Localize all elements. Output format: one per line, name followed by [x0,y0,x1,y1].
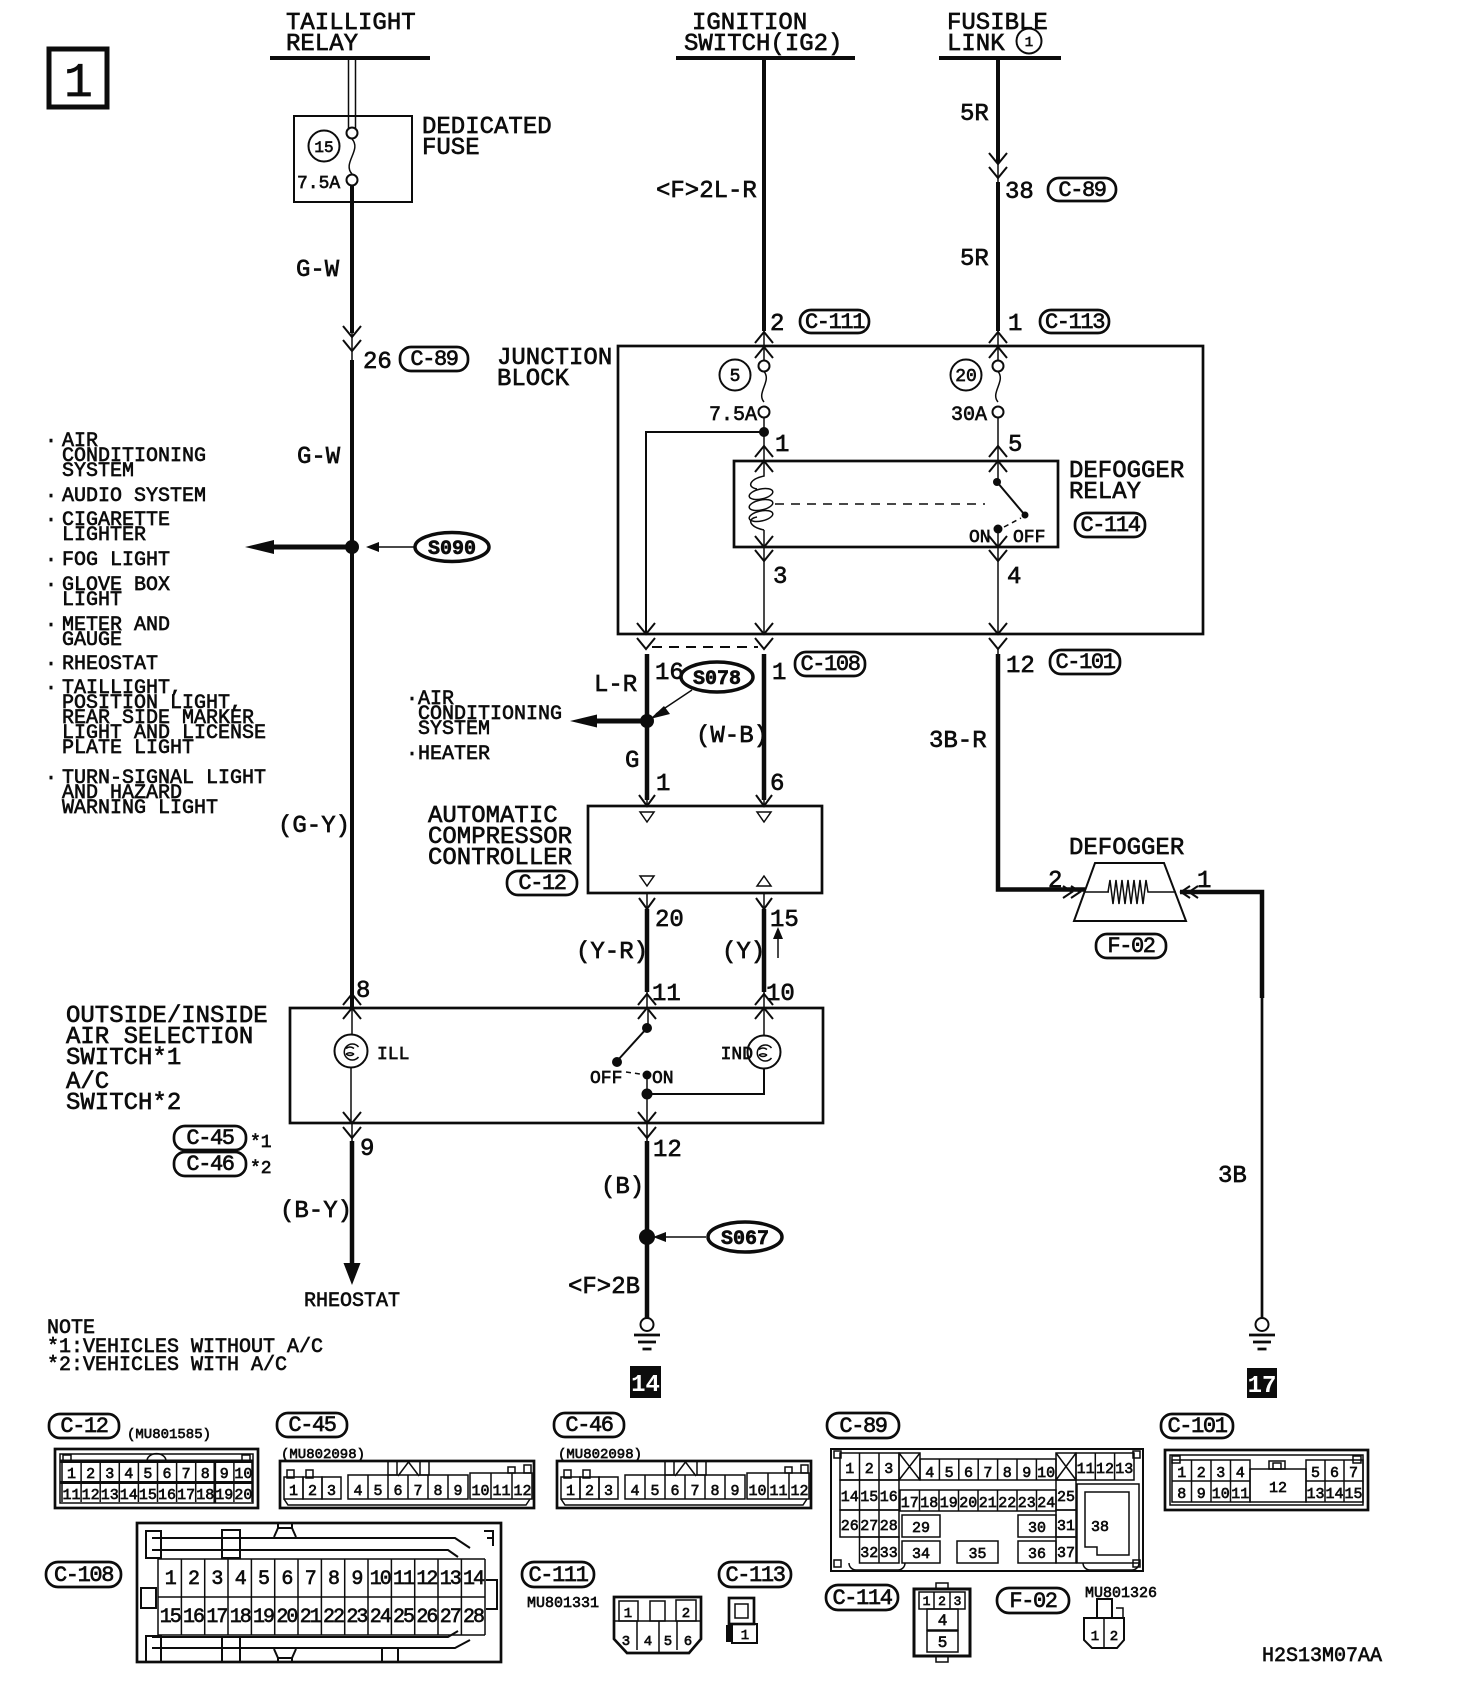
svg-text:29: 29 [912,1520,930,1537]
svg-text:19: 19 [215,1487,233,1504]
svg-text:21: 21 [979,1495,997,1512]
svg-text:14: 14 [631,1372,660,1399]
svg-text:7: 7 [1349,1465,1358,1482]
svg-text:12: 12 [653,1137,682,1164]
svg-text:C-108: C-108 [54,1563,113,1588]
svg-text:4: 4 [925,1465,934,1482]
svg-text:ON: ON [652,1069,674,1089]
svg-text:3: 3 [211,1568,222,1591]
svg-text:<F>2L-R: <F>2L-R [656,178,757,205]
svg-text:OFF: OFF [1013,528,1045,548]
svg-text:(G-Y): (G-Y) [278,813,350,840]
svg-text:(MU801585): (MU801585) [127,1427,211,1443]
svg-text:9: 9 [453,1483,462,1500]
svg-text:2: 2 [682,1606,690,1622]
svg-text:G-W: G-W [297,444,341,471]
svg-text:C-111: C-111 [528,1563,588,1588]
svg-text:4: 4 [1236,1465,1245,1482]
svg-text:9: 9 [1197,1486,1206,1503]
svg-text:RHEOSTAT: RHEOSTAT [304,1290,400,1313]
svg-text:6: 6 [162,1466,171,1483]
svg-text:*2: *2 [250,1159,272,1179]
svg-text:FUSE: FUSE [422,135,480,162]
svg-text:3: 3 [954,1594,962,1609]
svg-text:7: 7 [983,1465,992,1482]
svg-text:26: 26 [416,1606,437,1629]
svg-text:8: 8 [328,1568,339,1591]
svg-text:3: 3 [105,1466,114,1483]
svg-text:8: 8 [1177,1486,1186,1503]
svg-text:1: 1 [656,771,670,798]
svg-text:S067: S067 [721,1228,769,1251]
svg-text:5R: 5R [960,246,989,273]
svg-text:28: 28 [463,1606,484,1629]
svg-text:·: · [45,509,57,532]
svg-text:PLATE LIGHT: PLATE LIGHT [62,737,194,760]
svg-text:30A: 30A [951,404,987,427]
svg-text:12: 12 [513,1483,531,1500]
svg-text:1: 1 [67,1466,76,1483]
svg-text:33: 33 [880,1545,898,1562]
svg-text:ILL: ILL [377,1045,409,1065]
svg-text:5: 5 [1311,1465,1320,1482]
svg-text:13: 13 [440,1568,461,1591]
svg-text:20: 20 [276,1606,297,1629]
svg-text:9: 9 [220,1466,229,1483]
svg-text:22: 22 [998,1495,1016,1512]
svg-text:16: 16 [655,660,684,687]
svg-text:2: 2 [1048,868,1062,895]
svg-text:12: 12 [1006,653,1035,680]
svg-text:7: 7 [413,1483,422,1500]
svg-text:4: 4 [235,1568,246,1591]
svg-text:L-R: L-R [594,672,637,699]
svg-text:1: 1 [1008,311,1022,338]
svg-text:11: 11 [1077,1461,1095,1478]
svg-text:6: 6 [1330,1465,1339,1482]
svg-text:19: 19 [253,1606,274,1629]
svg-text:S078: S078 [693,668,741,691]
svg-text:5: 5 [143,1466,152,1483]
svg-text:*2:VEHICLES WITH A/C: *2:VEHICLES WITH A/C [47,1354,287,1377]
svg-text:5: 5 [373,1483,382,1500]
svg-text:26: 26 [363,349,392,376]
svg-text:17: 17 [177,1487,195,1504]
svg-text:14: 14 [463,1568,484,1591]
svg-text:8: 8 [1003,1465,1012,1482]
svg-text:C-108: C-108 [800,652,859,677]
svg-text:C-101: C-101 [1055,650,1115,675]
svg-text:1: 1 [772,660,786,687]
svg-text:16: 16 [880,1489,898,1506]
svg-text:15: 15 [860,1489,878,1506]
svg-text:LINK: LINK [947,31,1005,58]
svg-text:C-45: C-45 [288,1413,335,1438]
svg-text:(B-Y): (B-Y) [280,1198,352,1225]
svg-text:5: 5 [258,1568,269,1591]
svg-text:37: 37 [1057,1545,1075,1562]
svg-text:2: 2 [1110,1629,1118,1645]
svg-text:18: 18 [920,1495,938,1512]
svg-text:4: 4 [1007,564,1021,591]
svg-text:·: · [45,614,57,637]
svg-text:10: 10 [471,1483,489,1500]
svg-text:30: 30 [1028,1520,1046,1537]
svg-text:5: 5 [945,1465,954,1482]
svg-text:15: 15 [139,1487,157,1504]
svg-text:8: 8 [201,1466,210,1483]
svg-text:C-12: C-12 [518,871,565,896]
svg-text:2: 2 [308,1483,317,1500]
svg-text:SWITCH*2: SWITCH*2 [66,1090,181,1117]
svg-text:ON: ON [969,528,991,548]
svg-text:4: 4 [938,1612,948,1630]
svg-text:1: 1 [741,1628,749,1644]
svg-text:13: 13 [1115,1461,1133,1478]
svg-text:11: 11 [393,1568,415,1591]
svg-text:3: 3 [327,1483,336,1500]
svg-text:12: 12 [82,1487,100,1504]
svg-text:LIGHT: LIGHT [62,589,122,612]
svg-text:22: 22 [323,1606,344,1629]
svg-text:35: 35 [968,1546,986,1563]
svg-text:SYSTEM: SYSTEM [62,460,134,483]
svg-text:OFF: OFF [590,1069,622,1089]
svg-text:BLOCK: BLOCK [497,366,570,393]
svg-text:<F>2B: <F>2B [568,1274,640,1301]
svg-text:3B: 3B [1218,1163,1247,1190]
svg-text:C-111: C-111 [805,310,865,335]
svg-text:1: 1 [845,1461,854,1478]
svg-text:6: 6 [770,771,784,798]
svg-text:3B-R: 3B-R [929,728,987,755]
svg-text:17: 17 [901,1495,919,1512]
svg-text:5: 5 [730,367,741,387]
svg-text:15: 15 [1344,1486,1362,1503]
svg-text:·HEATER: ·HEATER [406,743,490,766]
svg-text:·: · [45,485,57,508]
svg-text:9: 9 [360,1136,374,1163]
svg-text:F-02: F-02 [1009,1589,1056,1614]
svg-text:(B): (B) [601,1174,644,1201]
svg-text:3: 3 [1216,1465,1225,1482]
svg-text:2: 2 [1197,1465,1206,1482]
svg-text:5: 5 [938,1634,948,1652]
svg-text:S090: S090 [428,538,476,561]
svg-text:IND: IND [721,1045,753,1065]
svg-text:AUDIO SYSTEM: AUDIO SYSTEM [62,485,206,508]
svg-text:C-101: C-101 [1167,1414,1227,1439]
svg-text:·: · [45,574,57,597]
svg-text:17: 17 [206,1606,227,1629]
svg-text:·: · [45,430,57,453]
svg-text:1: 1 [64,57,93,111]
svg-text:25: 25 [1057,1489,1075,1506]
svg-text:23: 23 [1018,1495,1036,1512]
svg-text:20: 20 [959,1495,977,1512]
svg-text:C-114: C-114 [832,1586,892,1611]
svg-text:G-W: G-W [296,257,340,284]
svg-text:8: 8 [433,1483,442,1500]
svg-text:RELAY: RELAY [1069,479,1141,506]
svg-text:9: 9 [1022,1465,1031,1482]
svg-text:27: 27 [440,1606,461,1629]
svg-text:(Y-R): (Y-R) [576,939,648,966]
svg-text:4: 4 [353,1483,362,1500]
svg-text:6: 6 [393,1483,402,1500]
svg-text:20: 20 [234,1487,252,1504]
svg-text:18: 18 [196,1487,214,1504]
svg-text:SWITCH*1: SWITCH*1 [66,1045,181,1072]
svg-text:C-89: C-89 [839,1414,886,1439]
svg-text:14: 14 [120,1487,138,1504]
svg-text:18: 18 [230,1606,251,1629]
svg-text:6: 6 [281,1568,292,1591]
svg-text:CONTROLLER: CONTROLLER [428,845,572,872]
svg-text:·: · [45,767,57,790]
svg-text:WARNING LIGHT: WARNING LIGHT [62,797,218,820]
svg-text:11: 11 [652,981,681,1008]
svg-text:4: 4 [644,1634,652,1650]
svg-text:(Y): (Y) [722,939,765,966]
svg-text:31: 31 [1057,1518,1075,1535]
svg-text:7: 7 [182,1466,191,1483]
svg-text:32: 32 [860,1545,878,1562]
svg-text:12: 12 [1269,1480,1287,1497]
svg-text:F-02: F-02 [1107,934,1154,959]
svg-text:12: 12 [416,1568,437,1591]
svg-text:6: 6 [684,1634,692,1650]
svg-text:13: 13 [1306,1486,1324,1503]
svg-text:24: 24 [370,1606,391,1629]
svg-text:1: 1 [289,1483,298,1500]
svg-text:10: 10 [234,1466,252,1483]
svg-text:6: 6 [964,1465,973,1482]
svg-text:DEFOGGER: DEFOGGER [1069,835,1184,862]
svg-text:2: 2 [86,1466,95,1483]
svg-text:12: 12 [1096,1461,1114,1478]
svg-text:3: 3 [773,564,787,591]
svg-text:36: 36 [1028,1546,1046,1563]
svg-text:SWITCH(IG2): SWITCH(IG2) [684,31,842,58]
svg-text:2: 2 [770,311,784,338]
svg-text:RHEOSTAT: RHEOSTAT [62,653,158,676]
svg-text:RELAY: RELAY [286,31,358,58]
svg-text:C-46: C-46 [565,1413,612,1438]
svg-text:7.5A: 7.5A [297,174,340,194]
svg-text:MU801331: MU801331 [527,1595,599,1612]
svg-text:*1: *1 [250,1133,272,1153]
svg-text:1: 1 [923,1594,931,1609]
svg-text:11: 11 [1231,1486,1249,1503]
svg-text:21: 21 [300,1606,322,1629]
svg-text:1: 1 [624,1606,632,1622]
svg-text:SYSTEM: SYSTEM [418,718,490,741]
svg-text:·: · [45,677,57,700]
svg-text:LIGHTER: LIGHTER [62,524,146,547]
svg-text:19: 19 [940,1495,958,1512]
svg-text:9: 9 [351,1568,362,1591]
svg-text:10: 10 [766,981,795,1008]
svg-text:5: 5 [664,1634,672,1650]
svg-text:27: 27 [860,1518,878,1535]
svg-text:FOG LIGHT: FOG LIGHT [62,549,170,572]
svg-text:2: 2 [938,1594,946,1609]
svg-text:14: 14 [1325,1486,1343,1503]
svg-text:10: 10 [1212,1486,1230,1503]
svg-text:C-45: C-45 [186,1126,233,1151]
svg-text:2: 2 [188,1568,199,1591]
svg-text:28: 28 [880,1518,898,1535]
svg-text:C-113: C-113 [1045,310,1104,335]
svg-text:C-46: C-46 [186,1152,233,1177]
svg-text:11: 11 [492,1483,510,1500]
svg-text:24: 24 [1037,1495,1055,1512]
svg-text:20: 20 [955,367,977,387]
svg-text:13: 13 [101,1487,119,1504]
svg-text:14: 14 [841,1489,859,1506]
svg-text:11: 11 [62,1487,80,1504]
svg-text:3: 3 [884,1461,893,1478]
svg-text:10: 10 [370,1568,391,1591]
svg-text:4: 4 [124,1466,133,1483]
svg-text:C-114: C-114 [1080,513,1140,538]
svg-text:15: 15 [160,1606,181,1629]
svg-text:1: 1 [1177,1465,1186,1482]
svg-text:10: 10 [1037,1465,1055,1482]
svg-text:34: 34 [912,1546,930,1563]
svg-text:1: 1 [1025,35,1033,51]
svg-text:GAUGE: GAUGE [62,629,122,652]
svg-text:25: 25 [393,1606,414,1629]
svg-text:C-12: C-12 [60,1414,107,1439]
svg-text:26: 26 [841,1518,859,1535]
svg-text:15: 15 [770,907,799,934]
svg-text:7.5A: 7.5A [709,404,757,427]
svg-text:16: 16 [183,1606,204,1629]
svg-text:38: 38 [1091,1519,1109,1536]
svg-text:·: · [45,549,57,572]
svg-text:H2S13M07AA: H2S13M07AA [1262,1645,1382,1668]
svg-text:C-113: C-113 [725,1563,784,1588]
svg-text:2: 2 [865,1461,874,1478]
svg-text:15: 15 [314,139,333,157]
svg-text:1: 1 [775,432,789,459]
svg-text:G: G [625,748,639,775]
svg-text:17: 17 [1248,1373,1277,1400]
svg-text:·: · [45,653,57,676]
svg-text:20: 20 [655,907,684,934]
svg-text:3: 3 [622,1634,630,1650]
svg-text:5R: 5R [960,101,989,128]
svg-text:MU801326: MU801326 [1085,1585,1157,1602]
svg-text:C-89: C-89 [410,347,457,372]
svg-text:1: 1 [1091,1629,1099,1645]
svg-text:C-89: C-89 [1058,178,1105,203]
svg-text:(W-B): (W-B) [696,723,768,750]
svg-text:8: 8 [356,978,370,1005]
svg-text:38: 38 [1005,179,1034,206]
svg-text:23: 23 [346,1606,367,1629]
svg-text:5: 5 [1008,432,1022,459]
svg-text:7: 7 [305,1568,316,1591]
svg-text:16: 16 [158,1487,176,1504]
